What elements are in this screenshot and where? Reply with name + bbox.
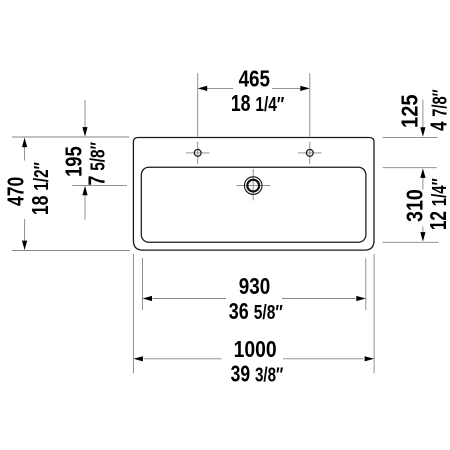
dimension 125 line tail [422, 100, 424, 128]
dimension 1000 line [144, 358, 364, 360]
dimension 1000 arrow left [133, 356, 143, 361]
dimension 465 extension line right [309, 73, 311, 137]
dimension 195 arrow up [82, 186, 87, 196]
svg-text:195: 195 [61, 146, 86, 177]
washbasin outer rim [133, 138, 374, 251]
dimension 930 extension line right [365, 258, 367, 310]
dimension 310 arrow up [420, 168, 425, 178]
faucet hole right [306, 150, 313, 157]
faucet hole left [194, 150, 201, 157]
dimension 465 line [207, 87, 302, 89]
dimension 470 extension line top [12, 136, 129, 138]
drain inner circle [247, 180, 259, 192]
dimension 125 extension line outer top right [383, 136, 438, 138]
dimension 1000 extension line right [373, 254, 375, 373]
dimension 195 line tails [84, 100, 86, 220]
dimension 465 arrow right [300, 86, 310, 91]
svg-text:7 5/8″: 7 5/8″ [84, 142, 110, 186]
faucet hole right crosshair [298, 142, 322, 164]
svg-text:36 5/8″: 36 5/8″ [229, 299, 283, 325]
basin inner bowl [141, 167, 366, 242]
svg-text:39 3/8″: 39 3/8″ [231, 362, 284, 387]
svg-text:18 1/4″: 18 1/4″ [231, 91, 285, 117]
dimension 125 extension line inner top right [383, 167, 437, 169]
svg-text:470: 470 [4, 177, 29, 206]
dimension 930 arrow right [356, 296, 366, 301]
dimension 470 arrow down [22, 241, 27, 251]
dimension 470 extension line bottom [12, 250, 130, 252]
svg-text:4 7/8″: 4 7/8″ [427, 89, 450, 131]
dimension 195 extension line at drain level [72, 184, 127, 186]
dimension 465 arrow left [198, 86, 208, 91]
dimension 1000 extension line left [132, 254, 134, 373]
svg-text:12 1/4″: 12 1/4″ [427, 178, 450, 230]
drain outer circle [244, 177, 262, 195]
dimension 1000 arrow right [365, 356, 375, 361]
faucet hole left crosshair [186, 142, 210, 164]
dimension 930 line [153, 298, 356, 300]
dimension 310 line [422, 176, 424, 235]
dimension 930 extension line left [142, 258, 144, 310]
svg-text:310: 310 [402, 189, 428, 222]
dimension 125 arrow down [420, 127, 425, 137]
dimension 465 extension line left [197, 73, 199, 137]
dimension 310 arrow down [420, 232, 425, 242]
dimension 310 extension line inner bottom right [383, 241, 439, 243]
svg-text:930: 930 [239, 274, 270, 299]
dimension 470 line [24, 146, 26, 241]
svg-text:18 1/2″: 18 1/2″ [28, 162, 54, 215]
dimension 470 arrow up [22, 138, 27, 148]
svg-text:125: 125 [396, 94, 423, 128]
svg-text:465: 465 [239, 67, 271, 92]
drain crosshair [236, 169, 270, 200]
dimension 195 arrow down [82, 127, 87, 137]
svg-text:1000: 1000 [234, 338, 277, 363]
dimension 930 arrow left [143, 296, 153, 301]
